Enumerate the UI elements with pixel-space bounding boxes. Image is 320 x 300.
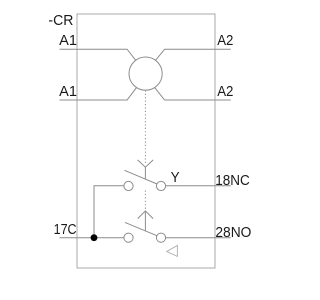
wire A2 top to coil: [155, 49, 231, 61]
wire 18NC: [166, 185, 231, 187]
wire 28NO: [166, 237, 231, 239]
junction node 17C branch: [91, 234, 98, 241]
delay symbol triangle: [167, 245, 178, 256]
svg-text:18NC: 18NC: [215, 173, 250, 189]
svg-text:28NO: 28NO: [215, 225, 251, 241]
svg-text:-CR: -CR: [48, 13, 73, 29]
actuator dotted link (coil to NC contact): [144, 90, 146, 164]
svg-text:17C: 17C: [54, 222, 77, 238]
wire 17C: [60, 237, 124, 239]
actuator arrow up (NO contact): [138, 211, 153, 231]
contact 17C-18NC left wire: [94, 186, 124, 238]
contact 17C-28NO right terminal: [156, 233, 165, 242]
contact 17C-28NO blade (open): [125, 222, 157, 235]
contact 17C-18NC blade (closed): [124, 170, 157, 184]
svg-text:Y: Y: [171, 170, 180, 186]
contact 17C-18NC left terminal: [124, 181, 133, 190]
svg-text:A2: A2: [217, 33, 233, 49]
wire A1 top to coil: [60, 49, 137, 61]
contact 17C-18NC right terminal: [156, 181, 165, 190]
actuator dotted link (between contacts): [144, 191, 146, 210]
contact 17C-28NO left terminal: [124, 233, 133, 242]
svg-text:A2: A2: [217, 84, 233, 100]
actuator arrow down (NC contact): [138, 160, 154, 180]
enclosure outline: [77, 14, 215, 268]
wire A2 second to coil: [155, 88, 231, 100]
svg-text:A1: A1: [59, 33, 77, 49]
svg-text:A1: A1: [59, 84, 77, 100]
wire A1 second to coil: [60, 88, 137, 100]
coil CR circle: [129, 57, 162, 90]
